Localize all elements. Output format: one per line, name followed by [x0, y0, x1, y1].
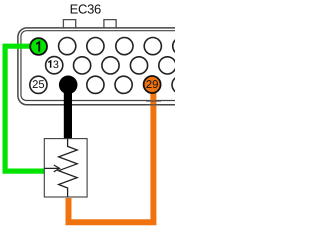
pin number 1 — [36, 41, 40, 52]
resistor box (potentiometer body) — [44, 139, 87, 197]
pin 26 (black) — [59, 76, 78, 95]
connector tab 1 — [63, 20, 75, 29]
wire: orange from pin 29 to resistor bottom — [69, 85, 154, 222]
pin 1 (green) — [30, 38, 47, 55]
svg-text:EC36: EC36 — [70, 2, 101, 17]
resistor zigzag element — [59, 139, 78, 197]
wiper arrow — [44, 165, 59, 172]
wire: black from pin 26 to resistor top — [64, 85, 72, 140]
svg-text:25: 25 — [32, 79, 44, 91]
connector tab 2 — [104, 20, 116, 29]
svg-text:29: 29 — [146, 79, 158, 91]
pin row 2 white circles — [46, 57, 176, 74]
connector EC36 body inner outline — [21, 31, 203, 101]
pin number 13 — [48, 60, 51, 68]
connector bottom edge lines redrawn over orange wire — [146, 101, 161, 105]
connector EC36 body outer outline — [18, 28, 200, 105]
pin row 3 white circles — [30, 76, 189, 93]
wire: green from pin 1 to resistor wiper — [5, 46, 44, 171]
svg-text:3: 3 — [53, 59, 59, 71]
pin row 1 white circles — [59, 38, 190, 55]
pin 29 (orange) — [144, 76, 161, 93]
